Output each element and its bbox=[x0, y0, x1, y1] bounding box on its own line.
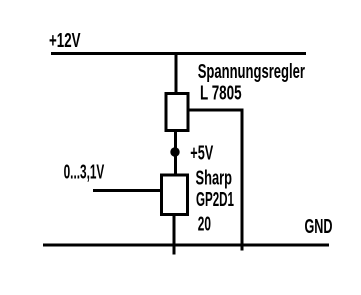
wire sensor analog output left bbox=[93, 189, 161, 192]
junction node +5V bbox=[170, 147, 179, 156]
svg-text:Spannungsregler: Spannungsregler bbox=[198, 60, 305, 83]
wire node +5V to sensor top bbox=[174, 151, 177, 175]
svg-text:20: 20 bbox=[198, 212, 211, 235]
wire from +12V rail to regulator input bbox=[175, 53, 178, 93]
wire +12V top rail bbox=[51, 52, 306, 55]
wire GND bottom rail bbox=[43, 244, 329, 247]
wire regulator bottom to node +5V bbox=[174, 131, 177, 152]
svg-text:GND: GND bbox=[305, 215, 333, 238]
svg-text:Sharp: Sharp bbox=[196, 167, 233, 190]
sensor Sharp GP2D120 body bbox=[162, 175, 188, 215]
voltage regulator L7805 body bbox=[166, 94, 188, 131]
wire right branch down to GND rail bbox=[241, 109, 244, 251]
wire sensor bottom to GND rail bbox=[173, 214, 176, 255]
svg-text:GP2D1: GP2D1 bbox=[196, 188, 234, 211]
svg-text:L 7805: L 7805 bbox=[200, 82, 242, 105]
svg-text:0...3,1V: 0...3,1V bbox=[64, 160, 105, 183]
svg-text:+12V: +12V bbox=[49, 29, 81, 52]
svg-text:+5V: +5V bbox=[190, 142, 213, 165]
wire regulator output to right branch bbox=[188, 109, 244, 112]
